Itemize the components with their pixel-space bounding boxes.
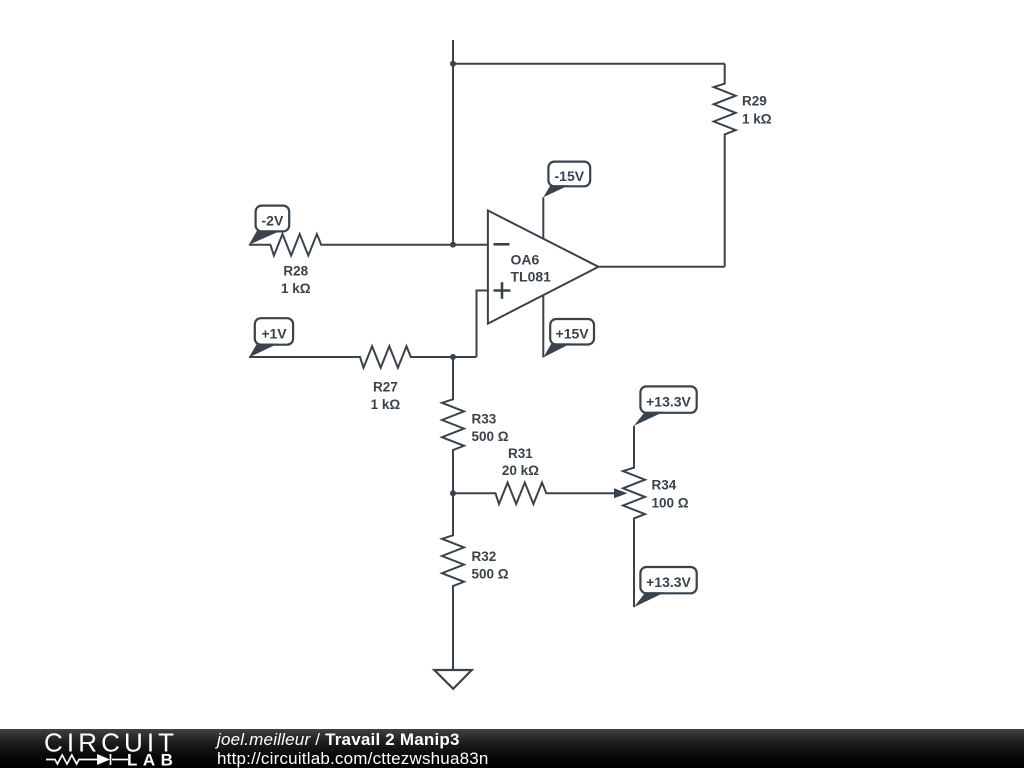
svg-text:500 Ω: 500 Ω — [472, 567, 509, 582]
svg-text:+13.3V: +13.3V — [646, 574, 691, 590]
wire top horizontal feedback — [453, 63, 725, 65]
svg-text:R32: R32 — [472, 549, 497, 564]
wire to non-inverting input — [477, 291, 488, 358]
svg-text:R29: R29 — [742, 94, 767, 109]
wire vertical from top stub down to inverting input node — [452, 40, 454, 245]
svg-text:OA6: OA6 — [511, 252, 540, 268]
flag -15V — [543, 162, 590, 198]
svg-text:R31: R31 — [508, 446, 533, 461]
footer bar — [0, 729, 1024, 768]
resistor R29 — [714, 64, 736, 267]
footer credit text — [217, 730, 489, 768]
svg-text:+13.3V: +13.3V — [646, 393, 691, 409]
ground — [434, 670, 472, 689]
wiper arrow into R34 — [614, 488, 628, 498]
svg-text:R28: R28 — [283, 264, 308, 279]
svg-text:R34: R34 — [652, 478, 677, 493]
wire positive supply pin — [542, 295, 544, 357]
node C junction non-inverting net — [450, 354, 456, 360]
svg-text:1 kΩ: 1 kΩ — [742, 112, 772, 127]
flag -2V — [249, 206, 289, 245]
resistor R32 — [442, 493, 464, 670]
flag +13.3V bottom — [634, 567, 697, 607]
wire op-amp output to feedback — [599, 266, 725, 268]
resistor R27 — [249, 346, 477, 368]
svg-text:+15V: +15V — [556, 326, 590, 342]
flag +1V — [249, 318, 293, 357]
op-amp U1 OA6 TL081 — [488, 211, 599, 324]
svg-text:+1V: +1V — [261, 325, 287, 341]
svg-text:R27: R27 — [373, 380, 398, 395]
svg-text:R33: R33 — [472, 412, 497, 427]
resistor R28 — [249, 234, 488, 256]
resistor R34 potentiometer — [623, 426, 645, 607]
svg-text:1 kΩ: 1 kΩ — [281, 281, 311, 296]
svg-text:TL081: TL081 — [511, 269, 552, 285]
svg-text:20 kΩ: 20 kΩ — [502, 463, 539, 478]
svg-text:-15V: -15V — [555, 168, 585, 184]
resistor R33 — [442, 357, 464, 493]
svg-text:500 Ω: 500 Ω — [472, 429, 509, 444]
svg-text:100 Ω: 100 Ω — [652, 496, 689, 511]
flag +13.3V top — [634, 386, 697, 425]
node B junction inverting input — [450, 242, 456, 248]
svg-text:LAB: LAB — [127, 751, 178, 768]
node D junction divider — [450, 490, 456, 496]
resistor R31 — [453, 483, 615, 505]
CircuitLab logo — [0, 729, 200, 768]
wire negative supply pin — [542, 197, 544, 238]
svg-text:-2V: -2V — [262, 212, 284, 228]
node A junction top — [450, 61, 456, 67]
flag +15V — [543, 319, 594, 357]
svg-text:1 kΩ: 1 kΩ — [371, 397, 401, 412]
